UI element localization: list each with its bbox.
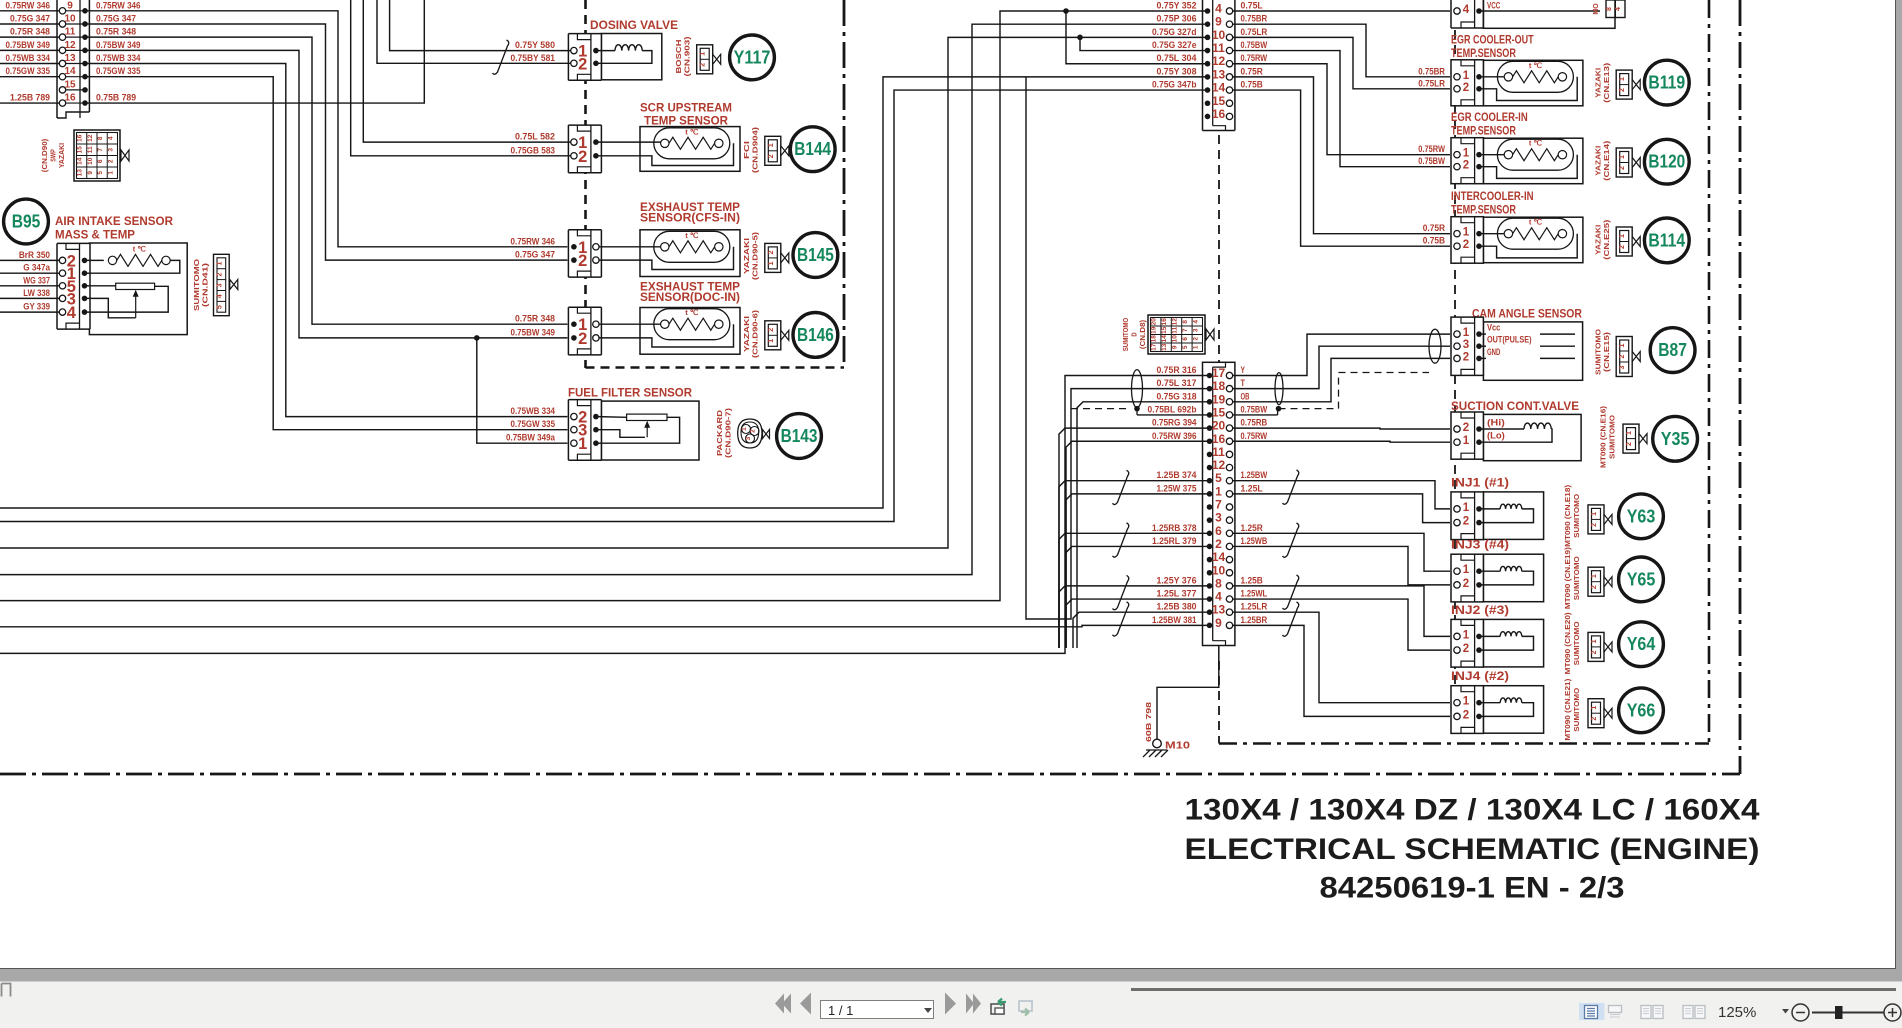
- svg-text:9: 9: [1172, 345, 1179, 349]
- svg-text:Y35: Y35: [1661, 429, 1690, 449]
- svg-text:4: 4: [1615, 7, 1622, 11]
- svg-text:1.25L 377: 1.25L 377: [1156, 589, 1196, 600]
- svg-text:0.75WB 334: 0.75WB 334: [6, 53, 51, 64]
- svg-text:16: 16: [77, 134, 84, 142]
- svg-text:1.25B: 1.25B: [1241, 575, 1263, 586]
- svg-text:0.75RW 396: 0.75RW 396: [1152, 431, 1197, 442]
- svg-text:8: 8: [1606, 7, 1613, 11]
- svg-text:11: 11: [1212, 41, 1225, 55]
- svg-text:(CN.D90-6): (CN.D90-6): [753, 310, 760, 358]
- svg-text:2: 2: [1463, 516, 1469, 528]
- svg-text:13: 13: [77, 169, 84, 177]
- svg-text:0.75G 327d: 0.75G 327d: [1152, 27, 1197, 38]
- svg-text:2: 2: [578, 55, 587, 73]
- svg-text:18: 18: [1212, 379, 1226, 393]
- svg-text:2: 2: [700, 63, 707, 67]
- svg-text:1: 1: [1619, 77, 1626, 81]
- svg-text:0.75B: 0.75B: [1241, 80, 1263, 91]
- svg-text:2: 2: [1463, 578, 1469, 590]
- svg-text:SUMITOMO: SUMITOMO: [1574, 556, 1581, 601]
- svg-text:4: 4: [1215, 2, 1222, 16]
- svg-text:0.75BR: 0.75BR: [1418, 66, 1445, 77]
- svg-text:11: 11: [1172, 326, 1179, 333]
- svg-text:2: 2: [1619, 88, 1626, 92]
- svg-text:12: 12: [1172, 318, 1179, 326]
- svg-text:0.75G 347: 0.75G 347: [10, 13, 50, 24]
- svg-text:0.75GB 583: 0.75GB 583: [511, 145, 556, 156]
- svg-text:15: 15: [77, 146, 84, 154]
- svg-text:2: 2: [216, 272, 223, 276]
- svg-text:1.25WL: 1.25WL: [1241, 589, 1268, 600]
- svg-text:TEMP SENSOR: TEMP SENSOR: [644, 116, 729, 128]
- svg-text:15: 15: [1161, 326, 1168, 334]
- svg-text:1: 1: [1463, 70, 1470, 82]
- svg-text:SUMITOMO: SUMITOMO: [194, 258, 201, 311]
- svg-text:9: 9: [1215, 616, 1222, 630]
- svg-text:14: 14: [1212, 81, 1226, 95]
- svg-text:1: 1: [1215, 484, 1222, 498]
- svg-text:1.25RB 378: 1.25RB 378: [1152, 523, 1197, 534]
- svg-text:2: 2: [107, 159, 114, 163]
- svg-text:1.25B 374: 1.25B 374: [1156, 470, 1197, 481]
- svg-text:SUMITOMO: SUMITOMO: [1574, 687, 1581, 732]
- svg-text:T: T: [1241, 378, 1246, 389]
- svg-text:5: 5: [1215, 471, 1222, 485]
- svg-text:0.75RW: 0.75RW: [1418, 144, 1445, 155]
- svg-text:0.75RW: 0.75RW: [1241, 53, 1268, 64]
- svg-text:2: 2: [1463, 239, 1469, 251]
- svg-text:8: 8: [1215, 576, 1222, 590]
- svg-text:9: 9: [1215, 15, 1222, 29]
- svg-text:(CN.E14): (CN.E14): [1604, 141, 1611, 181]
- svg-text:12: 12: [1212, 54, 1226, 68]
- svg-text:0.75BL 692b: 0.75BL 692b: [1148, 404, 1197, 415]
- svg-text:0.75Y 580: 0.75Y 580: [515, 40, 555, 51]
- svg-text:1: 1: [1619, 234, 1626, 238]
- svg-text:3: 3: [1215, 511, 1222, 525]
- svg-text:1: 1: [216, 262, 223, 266]
- svg-text:0.75G 327e: 0.75G 327e: [1152, 40, 1197, 51]
- svg-text:1: 1: [1591, 574, 1598, 578]
- svg-text:(CN.D8): (CN.D8): [1140, 320, 1147, 349]
- svg-text:0.75LR: 0.75LR: [1418, 78, 1445, 89]
- svg-text:1: 1: [1626, 431, 1633, 435]
- svg-text:t ℃: t ℃: [1529, 218, 1543, 227]
- svg-text:10: 10: [1172, 335, 1179, 343]
- svg-text:0.75Y 352: 0.75Y 352: [1156, 1, 1196, 12]
- svg-text:19: 19: [1212, 392, 1226, 406]
- svg-text:0.75Y 308: 0.75Y 308: [1156, 66, 1196, 77]
- svg-text:2: 2: [1215, 537, 1222, 551]
- svg-text:YAZAKI: YAZAKI: [1596, 68, 1603, 98]
- svg-text:Y65: Y65: [1627, 569, 1656, 589]
- svg-text:YAZAKI: YAZAKI: [59, 143, 66, 168]
- svg-text:0.75GW 335: 0.75GW 335: [511, 419, 556, 430]
- svg-text:0.75L 582: 0.75L 582: [515, 132, 555, 143]
- svg-text:84250619-1 EN - 2/3: 84250619-1 EN - 2/3: [1320, 872, 1625, 905]
- svg-text:20: 20: [1212, 419, 1226, 433]
- svg-text:Y64: Y64: [1627, 634, 1656, 654]
- svg-text:0.75BW 349: 0.75BW 349: [511, 327, 556, 338]
- svg-text:5: 5: [216, 305, 223, 309]
- svg-text:B144: B144: [794, 139, 831, 159]
- svg-text:0.75BW 349: 0.75BW 349: [6, 40, 51, 51]
- svg-text:0.75RW 346: 0.75RW 346: [6, 0, 51, 11]
- svg-text:15: 15: [1212, 94, 1226, 108]
- svg-text:2: 2: [1463, 82, 1469, 94]
- svg-text:7: 7: [97, 148, 104, 152]
- svg-text:OUT(PULSE): OUT(PULSE): [1487, 335, 1532, 346]
- svg-text:INJ1 (#1): INJ1 (#1): [1451, 477, 1509, 489]
- svg-text:14: 14: [77, 157, 84, 165]
- svg-text:0.75L: 0.75L: [1241, 1, 1263, 12]
- svg-text:13: 13: [1212, 603, 1226, 617]
- svg-text:1: 1: [1619, 155, 1626, 159]
- svg-text:B145: B145: [797, 245, 834, 265]
- svg-text:13: 13: [1212, 67, 1226, 81]
- svg-text:1.25B 789: 1.25B 789: [10, 93, 50, 104]
- svg-text:4: 4: [107, 136, 114, 140]
- svg-text:2: 2: [1463, 422, 1469, 434]
- svg-text:1.25WB: 1.25WB: [1241, 536, 1268, 547]
- svg-text:1: 1: [741, 427, 748, 431]
- svg-text:G 347a: G 347a: [23, 263, 50, 274]
- svg-text:(Lo): (Lo): [1487, 431, 1505, 442]
- svg-text:YAZAKI: YAZAKI: [744, 238, 751, 274]
- svg-text:INTERCOOLER-IN: INTERCOOLER-IN: [1451, 191, 1534, 203]
- svg-text:SUMITOMO: SUMITOMO: [1596, 328, 1603, 375]
- svg-text:2: 2: [1591, 717, 1598, 721]
- svg-text:B146: B146: [797, 325, 834, 345]
- svg-text:3: 3: [1463, 339, 1469, 351]
- svg-text:t ℃: t ℃: [685, 231, 699, 240]
- svg-text:0.75RB: 0.75RB: [1241, 418, 1268, 429]
- svg-text:M10: M10: [1165, 740, 1190, 752]
- svg-text:0.75BW: 0.75BW: [1241, 404, 1268, 415]
- svg-text:10: 10: [1212, 28, 1226, 42]
- svg-text:1.25B 380: 1.25B 380: [1156, 602, 1196, 613]
- svg-text:INJ4 (#2): INJ4 (#2): [1451, 671, 1509, 683]
- svg-text:1.25BR: 1.25BR: [1241, 615, 1268, 626]
- svg-text:6: 6: [97, 159, 104, 163]
- svg-text:0.75BR: 0.75BR: [1241, 14, 1268, 25]
- svg-text:2: 2: [578, 148, 587, 166]
- svg-text:2: 2: [768, 250, 775, 254]
- svg-text:0.75R: 0.75R: [1423, 223, 1445, 234]
- svg-text:3: 3: [1192, 328, 1199, 332]
- svg-text:12: 12: [64, 40, 76, 51]
- svg-text:11: 11: [1212, 445, 1225, 459]
- svg-text:2: 2: [1591, 650, 1598, 654]
- svg-text:0.75G 318: 0.75G 318: [1156, 391, 1196, 402]
- svg-text:2: 2: [1463, 643, 1469, 655]
- svg-text:(CN.E15): (CN.E15): [1604, 332, 1611, 372]
- svg-text:SENSOR(CFS-IN): SENSOR(CFS-IN): [640, 213, 740, 225]
- svg-text:4: 4: [1192, 320, 1199, 324]
- svg-text:(CN.E25): (CN.E25): [1604, 220, 1611, 260]
- svg-text:(CN.E13): (CN.E13): [1604, 63, 1611, 103]
- svg-text:0.75WB 334: 0.75WB 334: [511, 406, 556, 417]
- svg-text:12: 12: [1212, 458, 1226, 472]
- svg-text:14: 14: [64, 66, 76, 77]
- svg-text:0.75WB 334: 0.75WB 334: [96, 53, 141, 64]
- svg-text:10: 10: [1212, 563, 1226, 577]
- svg-text:0.75LR: 0.75LR: [1241, 27, 1268, 38]
- svg-text:TEMP.SENSOR: TEMP.SENSOR: [1451, 205, 1516, 217]
- svg-text:10: 10: [64, 13, 76, 24]
- svg-text:5: 5: [97, 171, 104, 175]
- svg-text:8: 8: [1182, 320, 1189, 324]
- svg-text:15: 15: [1212, 405, 1226, 419]
- svg-text:14: 14: [1212, 550, 1226, 564]
- svg-text:FUEL FILTER SENSOR: FUEL FILTER SENSOR: [568, 388, 693, 400]
- svg-text:1.25RL 379: 1.25RL 379: [1152, 536, 1197, 547]
- svg-text:t ℃: t ℃: [133, 245, 147, 254]
- svg-text:1: 1: [1463, 435, 1470, 447]
- svg-text:EGR COOLER-OUT: EGR COOLER-OUT: [1451, 34, 1534, 46]
- svg-text:1: 1: [1591, 706, 1598, 710]
- svg-text:BrR 350: BrR 350: [19, 250, 50, 261]
- svg-text:0.75RW: 0.75RW: [1241, 431, 1268, 442]
- svg-text:PACKARD: PACKARD: [717, 410, 724, 456]
- svg-text:B143: B143: [781, 426, 818, 446]
- svg-text:MT090 (CN.E21): MT090 (CN.E21): [1565, 679, 1572, 741]
- svg-text:Y117: Y117: [734, 47, 771, 67]
- svg-text:MT090 (CN.E20): MT090 (CN.E20): [1565, 612, 1572, 674]
- svg-text:1: 1: [768, 143, 775, 147]
- svg-text:0.75R 348: 0.75R 348: [515, 314, 555, 325]
- svg-text:YAZAKI: YAZAKI: [1596, 146, 1603, 176]
- svg-text:1: 1: [107, 171, 114, 175]
- svg-text:YAZAKI: YAZAKI: [1596, 225, 1603, 255]
- svg-text:1: 1: [1192, 345, 1199, 349]
- svg-text:Y: Y: [1241, 365, 1246, 376]
- svg-text:0.75R: 0.75R: [1241, 66, 1263, 77]
- svg-text:1.25R: 1.25R: [1241, 523, 1263, 534]
- svg-text:OB: OB: [1241, 391, 1250, 402]
- svg-text:0.75BW: 0.75BW: [1418, 156, 1445, 167]
- svg-text:1: 1: [1463, 227, 1470, 239]
- svg-text:1: 1: [1463, 629, 1470, 641]
- svg-text:5: 5: [1182, 345, 1189, 349]
- svg-text:18: 18: [1151, 335, 1158, 343]
- svg-text:1: 1: [768, 339, 775, 343]
- svg-text:MT090 (CN.E19): MT090 (CN.E19): [1565, 547, 1572, 609]
- svg-text:GY 339: GY 339: [23, 302, 50, 313]
- svg-text:0.75RG 394: 0.75RG 394: [1152, 418, 1197, 429]
- svg-text:6: 6: [1215, 524, 1222, 538]
- svg-text:ELECTRICAL SCHEMATIC (ENGINE): ELECTRICAL SCHEMATIC (ENGINE): [1185, 833, 1760, 866]
- svg-text:9: 9: [67, 0, 73, 11]
- svg-text:130X4 / 130X4 DZ / 130X4 LC /: 130X4 / 130X4 DZ / 130X4 LC / 160X4: [1185, 794, 1760, 827]
- svg-text:16: 16: [64, 93, 76, 104]
- svg-text:13: 13: [64, 53, 76, 64]
- svg-text:3: 3: [107, 148, 114, 152]
- svg-text:2: 2: [1192, 337, 1199, 341]
- svg-text:1: 1: [1463, 502, 1470, 514]
- svg-text:14: 14: [1161, 335, 1168, 343]
- svg-text:2: 2: [1463, 160, 1469, 172]
- svg-text:CAM ANGLE SENSOR: CAM ANGLE SENSOR: [1472, 309, 1583, 321]
- svg-text:2: 2: [1591, 585, 1598, 589]
- svg-text:2: 2: [1463, 351, 1469, 363]
- svg-text:2: 2: [750, 429, 757, 433]
- svg-text:0.75BW: 0.75BW: [1241, 40, 1268, 51]
- svg-text:INJ2 (#3): INJ2 (#3): [1451, 605, 1509, 617]
- svg-text:3: 3: [216, 283, 223, 287]
- svg-text:0.75BY 581: 0.75BY 581: [511, 53, 556, 64]
- svg-text:0.75BW 349a: 0.75BW 349a: [506, 433, 556, 444]
- svg-text:B120: B120: [1648, 152, 1685, 172]
- svg-text:2: 2: [1619, 354, 1626, 358]
- svg-text:FCI: FCI: [744, 141, 751, 159]
- svg-text:1: 1: [578, 435, 587, 453]
- svg-text:VCC: VCC: [1487, 1, 1500, 12]
- svg-text:0.75G 347: 0.75G 347: [515, 250, 555, 261]
- svg-text:125%: 125%: [1718, 1004, 1756, 1021]
- svg-text:8: 8: [97, 136, 104, 140]
- svg-text:2: 2: [1591, 523, 1598, 527]
- svg-text:11: 11: [65, 27, 76, 38]
- svg-text:SCR UPSTREAM: SCR UPSTREAM: [640, 103, 732, 115]
- svg-text:(CN.D90-5): (CN.D90-5): [753, 232, 760, 280]
- svg-text:D: D: [1132, 332, 1139, 336]
- svg-text:0.75R 316: 0.75R 316: [1156, 365, 1196, 376]
- svg-text:0.75R 348: 0.75R 348: [96, 27, 136, 38]
- svg-text:7: 7: [1215, 498, 1222, 512]
- svg-text:Vcc: Vcc: [1487, 323, 1500, 334]
- svg-text:4: 4: [67, 304, 77, 322]
- svg-text:16: 16: [1212, 107, 1226, 121]
- svg-text:0.75GW 335: 0.75GW 335: [6, 66, 51, 77]
- svg-text:GND: GND: [1487, 347, 1500, 358]
- svg-text:LW 338: LW 338: [23, 288, 50, 299]
- svg-text:1: 1: [1619, 343, 1626, 347]
- svg-text:1: 1: [1463, 696, 1470, 708]
- svg-text:(CN.D41): (CN.D41): [203, 263, 210, 307]
- svg-text:2: 2: [1619, 245, 1626, 249]
- svg-text:TEMP.SENSOR: TEMP.SENSOR: [1451, 126, 1516, 138]
- svg-text:SENSOR(DOC-IN): SENSOR(DOC-IN): [640, 292, 740, 304]
- svg-text:3: 3: [1619, 365, 1626, 369]
- svg-text:0.75RW 346: 0.75RW 346: [511, 236, 556, 247]
- svg-text:(CN.D90): (CN.D90): [42, 139, 49, 173]
- svg-text:0.75B: 0.75B: [1423, 236, 1445, 247]
- svg-text:SUMITOMO: SUMITOMO: [1610, 414, 1617, 459]
- svg-text:t ℃: t ℃: [685, 127, 699, 136]
- svg-text:17: 17: [1151, 343, 1158, 351]
- svg-text:4: 4: [1215, 590, 1222, 604]
- svg-text:2: 2: [578, 330, 587, 348]
- svg-text:DOSING VALVE: DOSING VALVE: [590, 20, 678, 32]
- svg-text:MASS & TEMP: MASS & TEMP: [55, 230, 135, 242]
- svg-text:0.75GW 335: 0.75GW 335: [96, 66, 141, 77]
- svg-text:6: 6: [1182, 337, 1189, 341]
- svg-text:(Hi): (Hi): [1487, 418, 1505, 429]
- svg-text:INJ3 (#4): INJ3 (#4): [1451, 540, 1509, 552]
- svg-text:1.25BW 381: 1.25BW 381: [1152, 615, 1197, 626]
- svg-text:(CN.903): (CN.903): [685, 37, 692, 77]
- svg-text:17: 17: [1212, 366, 1226, 380]
- svg-text:t ℃: t ℃: [685, 308, 699, 317]
- svg-text:t ℃: t ℃: [1529, 61, 1543, 70]
- svg-text:3: 3: [745, 436, 752, 440]
- svg-text:0.75G 347b: 0.75G 347b: [1152, 80, 1197, 91]
- svg-text:t ℃: t ℃: [1529, 139, 1543, 148]
- svg-text:19: 19: [1151, 326, 1158, 334]
- svg-text:0.75RW 346: 0.75RW 346: [96, 0, 141, 11]
- svg-text:YAZAKI: YAZAKI: [744, 316, 751, 352]
- svg-text:0.75L 317: 0.75L 317: [1156, 378, 1196, 389]
- svg-text:2: 2: [1463, 709, 1469, 721]
- svg-text:AIR INTAKE SENSOR: AIR INTAKE SENSOR: [55, 216, 174, 228]
- svg-text:7: 7: [1182, 328, 1189, 332]
- svg-text:1.25Y 376: 1.25Y 376: [1156, 575, 1196, 586]
- svg-text:12: 12: [87, 134, 94, 142]
- svg-text:2: 2: [1626, 442, 1633, 446]
- svg-text:1.25BW: 1.25BW: [1241, 470, 1268, 481]
- svg-text:0.75P 306: 0.75P 306: [1156, 14, 1196, 25]
- svg-text:4: 4: [1463, 4, 1470, 16]
- svg-text:1: 1: [1463, 148, 1470, 160]
- svg-text:Y63: Y63: [1627, 506, 1656, 526]
- svg-text:MO: MO: [1593, 3, 1600, 15]
- svg-text:WG 337: WG 337: [23, 275, 50, 286]
- svg-text:MT090 (CN.E16): MT090 (CN.E16): [1601, 406, 1608, 468]
- svg-text:2: 2: [578, 252, 587, 270]
- svg-text:B87: B87: [1658, 340, 1687, 360]
- svg-text:SWP: SWP: [51, 149, 58, 162]
- svg-text:2: 2: [768, 154, 775, 158]
- svg-text:13: 13: [1161, 343, 1168, 351]
- svg-text:1: 1: [700, 52, 707, 56]
- svg-text:1: 1: [1463, 327, 1470, 339]
- svg-text:60B 798: 60B 798: [1146, 702, 1153, 742]
- svg-text:1: 1: [1591, 512, 1598, 516]
- svg-text:1: 1: [768, 261, 775, 265]
- svg-text:2: 2: [768, 328, 775, 332]
- svg-text:SUMITOMO: SUMITOMO: [1123, 317, 1130, 351]
- svg-text:1.25L: 1.25L: [1241, 483, 1263, 494]
- svg-text:4: 4: [216, 294, 223, 298]
- svg-text:16: 16: [1212, 432, 1226, 446]
- svg-text:20: 20: [1151, 318, 1158, 326]
- svg-text:B114: B114: [1648, 230, 1685, 250]
- svg-text:16: 16: [1161, 318, 1168, 326]
- svg-text:10: 10: [87, 157, 94, 165]
- svg-text:0.75G 347: 0.75G 347: [96, 13, 136, 24]
- svg-text:0.75R 348: 0.75R 348: [10, 27, 50, 38]
- svg-text:0.75BW 349: 0.75BW 349: [96, 40, 141, 51]
- svg-text:SUMITOMO: SUMITOMO: [1574, 621, 1581, 666]
- svg-text:9: 9: [87, 171, 94, 175]
- svg-text:TEMP.SENSOR: TEMP.SENSOR: [1451, 48, 1516, 60]
- svg-text:2: 2: [1619, 166, 1626, 170]
- svg-text:SUMITOMO: SUMITOMO: [1574, 493, 1581, 538]
- svg-text:1.25LR: 1.25LR: [1241, 602, 1268, 613]
- svg-text:BOSCH: BOSCH: [676, 40, 683, 74]
- svg-text:1.25W 375: 1.25W 375: [1156, 483, 1197, 494]
- svg-text:MT090 (CN.E18): MT090 (CN.E18): [1565, 485, 1572, 547]
- svg-text:B95: B95: [12, 212, 41, 232]
- svg-text:1: 1: [1463, 564, 1470, 576]
- svg-text:(CN.D90-7): (CN.D90-7): [726, 408, 733, 458]
- svg-text:1: 1: [1591, 639, 1598, 643]
- svg-text:Y66: Y66: [1627, 700, 1656, 720]
- svg-text:SUCTION CONT.VALVE: SUCTION CONT.VALVE: [1451, 401, 1579, 413]
- svg-text:15: 15: [64, 79, 76, 90]
- svg-text:B119: B119: [1648, 73, 1685, 93]
